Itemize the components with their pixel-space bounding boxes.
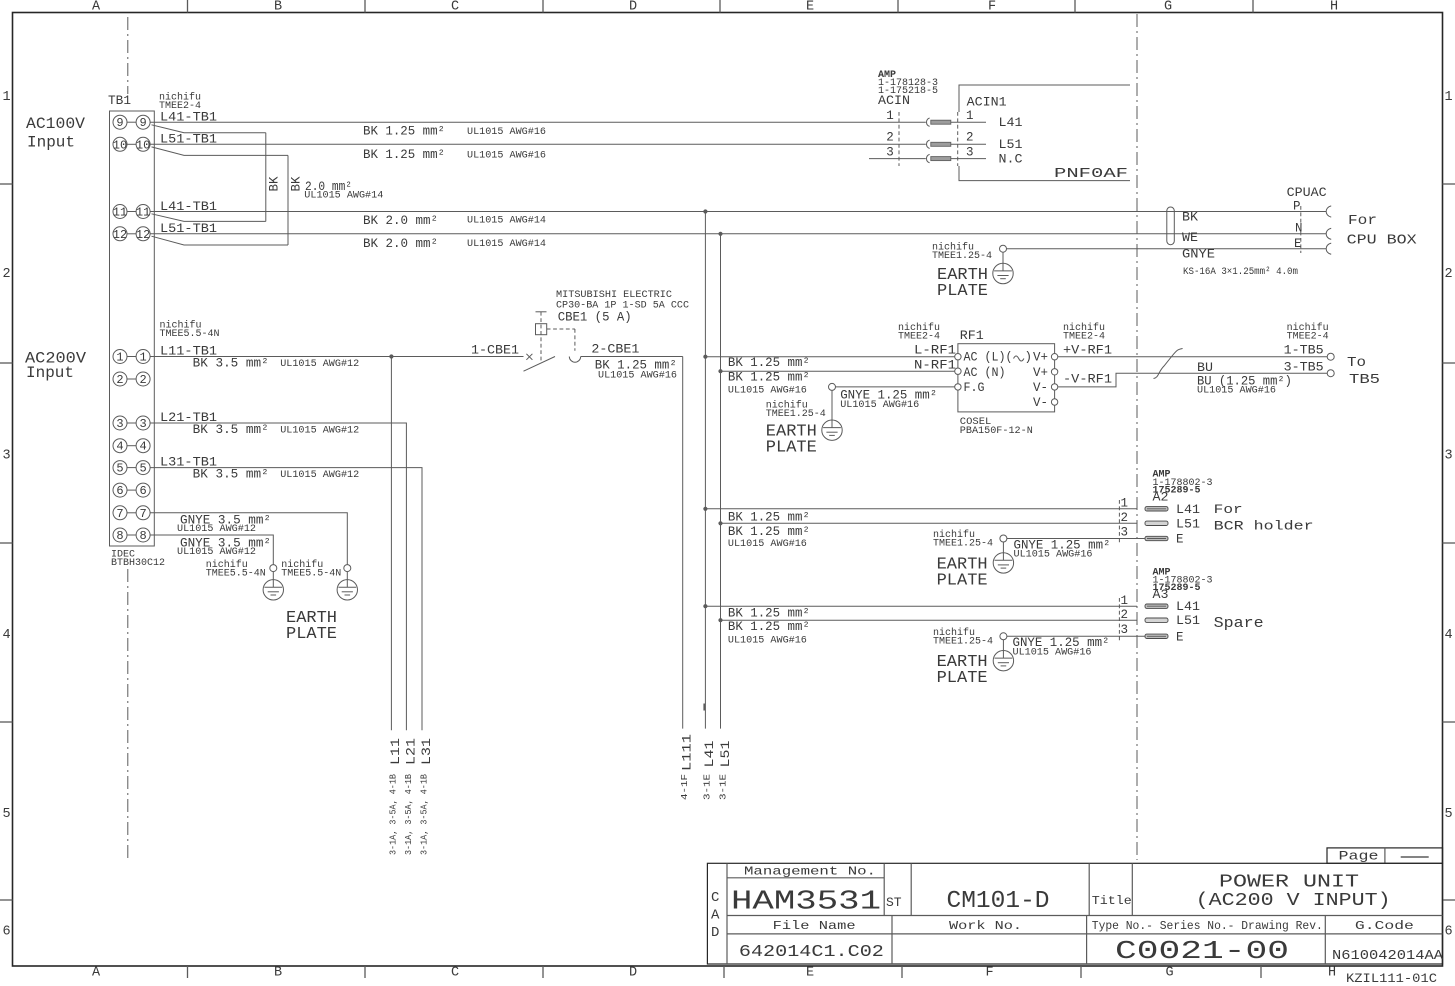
svg-text:2: 2 [2, 267, 10, 282]
svg-text:V-: V- [1033, 396, 1048, 410]
svg-text:12: 12 [113, 228, 127, 242]
svg-text:L51-TB1: L51-TB1 [160, 133, 217, 147]
svg-text:3-1A, 3-5A, 4-1B: 3-1A, 3-5A, 4-1B [403, 774, 414, 855]
svg-text:TMEE5.5-4N: TMEE5.5-4N [206, 569, 266, 580]
svg-text:L-RF1: L-RF1 [914, 344, 956, 358]
svg-text:4: 4 [2, 628, 10, 643]
TB1 terminal 9 [113, 115, 127, 129]
svg-text:N610042014AA: N610042014AA [1332, 949, 1444, 964]
earth plate terminal (CPU BOX) [1000, 245, 1007, 252]
svg-text:F: F [986, 966, 994, 981]
svg-text:RF1: RF1 [960, 329, 984, 343]
svg-text:BTBH30C12: BTBH30C12 [111, 558, 165, 569]
svg-text:C0021-00: C0021-00 [1115, 936, 1289, 966]
svg-text:BK 1.25 mm²: BK 1.25 mm² [363, 148, 445, 162]
svg-text:12: 12 [136, 228, 150, 242]
wire L11-TB1 (TB1-1 to CBE1) [151, 356, 524, 358]
A2 crimp splice 2 [1145, 521, 1168, 525]
svg-text:H: H [1330, 0, 1338, 15]
wire L41 to A3-1 [703, 604, 707, 608]
svg-text:3: 3 [886, 146, 894, 160]
A3 crimp splice 1 [1145, 604, 1168, 608]
svg-text:BK: BK [1182, 211, 1199, 225]
svg-text:4: 4 [139, 440, 146, 454]
svg-text:Type No.- Series No.- Drawing: Type No.- Series No.- Drawing Rev. [1092, 919, 1323, 933]
wire size-change tick on L41 [703, 704, 705, 711]
svg-text:UL1015 AWG#16: UL1015 AWG#16 [728, 634, 807, 646]
svg-text:2: 2 [116, 373, 123, 387]
svg-text:2: 2 [886, 131, 894, 145]
svg-text:5: 5 [116, 462, 123, 476]
svg-text:CPU BOX: CPU BOX [1347, 233, 1418, 249]
svg-text:5: 5 [1444, 807, 1452, 822]
RF1 pin F.G [955, 384, 961, 390]
svg-text:UL1015 AWG#12: UL1015 AWG#12 [177, 546, 256, 558]
wire L41 to A2-1 [703, 507, 707, 511]
svg-text:BK 1.25 mm²: BK 1.25 mm² [728, 620, 810, 634]
ACIN connector mating face (dashed) [898, 112, 900, 166]
svg-text:L41: L41 [1176, 503, 1200, 517]
node L31 off-page label [419, 738, 434, 765]
svg-text:N: N [1295, 222, 1303, 236]
breaker CBE1 contact cross [526, 354, 532, 360]
svg-text:CM101-D: CM101-D [947, 888, 1050, 915]
svg-text:BK 3.5 mm²: BK 3.5 mm² [193, 423, 269, 437]
svg-text:TMEE1.25-4: TMEE1.25-4 [932, 251, 992, 262]
wire L21-TB1 (TB1-3, off-page) [151, 423, 407, 730]
svg-text:HAM3531: HAM3531 [731, 888, 881, 918]
svg-text:+V-RF1: +V-RF1 [1063, 344, 1112, 358]
junction node L41 tap [703, 209, 707, 213]
svg-text:For: For [1348, 213, 1377, 229]
svg-text:PLATE: PLATE [766, 438, 817, 457]
svg-text:UL1015 AWG#16: UL1015 AWG#16 [728, 385, 807, 397]
svg-text:2: 2 [1120, 511, 1128, 525]
svg-text:BK 1.25 mm²: BK 1.25 mm² [728, 607, 810, 621]
svg-text:G: G [1166, 966, 1174, 981]
svg-text:PLATE: PLATE [937, 669, 988, 688]
svg-text:V+: V+ [1033, 366, 1048, 380]
earth wire A2-3 (GNYE) [1007, 538, 1145, 540]
svg-text:UL1015 AWG#16: UL1015 AWG#16 [1197, 385, 1276, 397]
svg-text:Input: Input [27, 133, 75, 151]
wire L41-TB1 (TB1-11 to CPU BOX P) [151, 211, 1327, 213]
svg-text:C: C [711, 890, 719, 906]
svg-text:V+: V+ [1033, 351, 1048, 365]
unit partition line (right, dash-dot) [1136, 14, 1138, 860]
earth wire A3-3 (GNYE) [1007, 635, 1145, 637]
svg-text:8: 8 [139, 529, 146, 543]
TB1 terminal 11 [113, 205, 127, 219]
A3 crimp splice 2 [1145, 618, 1168, 622]
svg-text:GNYE: GNYE [1182, 248, 1215, 262]
svg-text:3: 3 [1120, 623, 1128, 637]
svg-text:Management No.: Management No. [744, 865, 876, 879]
RF1 pin AC(L) [955, 354, 961, 360]
wire L51-TB1 (TB1-12 to CPU BOX N) [151, 233, 1327, 235]
TB1 terminal 12 [113, 227, 127, 241]
TB1 terminal 4 [113, 439, 127, 453]
svg-text:3-1E: 3-1E [718, 774, 729, 800]
noise filter PNF0AF box [959, 85, 1130, 112]
svg-text:3: 3 [139, 417, 146, 431]
junction node L11 drop [389, 354, 393, 358]
svg-text:2: 2 [1444, 267, 1452, 282]
svg-text:AC100V: AC100V [26, 115, 85, 133]
svg-text:CPUAC: CPUAC [1287, 186, 1327, 200]
svg-text:2: 2 [966, 131, 974, 145]
svg-text:-V-RF1: -V-RF1 [1063, 373, 1112, 387]
svg-text:3: 3 [1120, 526, 1128, 540]
power-unit partition line (left, dash-dot) [127, 17, 129, 94]
svg-text:1: 1 [966, 109, 974, 123]
svg-text:D: D [629, 0, 637, 15]
svg-text:POWER UNIT: POWER UNIT [1219, 873, 1359, 893]
wire L41 vertical distribution [704, 212, 706, 729]
svg-text:11: 11 [136, 206, 150, 220]
svg-text:UL1015 AWG#12: UL1015 AWG#12 [177, 523, 256, 535]
wire +V-RF1 to TB5-1 [1058, 356, 1327, 358]
svg-text:L41: L41 [1176, 600, 1200, 614]
svg-text:KS-16A 3×1.25mm² 4.0m: KS-16A 3×1.25mm² 4.0m [1183, 267, 1298, 278]
svg-text:D: D [711, 925, 719, 941]
svg-text:4: 4 [1444, 628, 1452, 643]
TB1 terminal 5 [113, 461, 127, 475]
svg-text:TMEE5.5-4N: TMEE5.5-4N [160, 329, 220, 340]
svg-text:E: E [1176, 630, 1184, 644]
TB1 terminal 8 [113, 528, 127, 542]
svg-text:6: 6 [2, 925, 10, 940]
svg-text:BK 1.25 mm²: BK 1.25 mm² [363, 125, 445, 139]
earth wire TB1-7 (GNYE 3.5mm) [151, 513, 348, 565]
svg-text:BK 1.25 mm²: BK 1.25 mm² [728, 511, 810, 525]
title block [707, 848, 1442, 964]
A3 crimp splice 3 [1145, 634, 1168, 638]
earth plate terminal (TB1-8) [270, 565, 277, 572]
svg-text:3: 3 [966, 146, 974, 160]
svg-text:PLATE: PLATE [937, 282, 988, 301]
svg-text:3: 3 [2, 449, 10, 464]
svg-text:Title: Title [1092, 894, 1132, 908]
wire L111 drop to off-page [682, 357, 684, 729]
wire L51 to A3-2 [718, 618, 722, 622]
svg-text:UL1015 AWG#12: UL1015 AWG#12 [280, 358, 359, 370]
svg-text:L31: L31 [419, 738, 434, 765]
svg-text:BK 1.25 mm²: BK 1.25 mm² [728, 356, 810, 370]
svg-text:UL1015 AWG#16: UL1015 AWG#16 [598, 370, 677, 382]
TB1 terminal 2 [113, 372, 127, 386]
svg-text:UL1015 AWG#16: UL1015 AWG#16 [467, 126, 546, 138]
node L51 off-page label [718, 740, 733, 767]
svg-text:CBE1 (5 A): CBE1 (5 A) [558, 310, 632, 324]
svg-text:4: 4 [116, 440, 123, 454]
svg-text:C: C [451, 0, 459, 15]
svg-text:3: 3 [116, 417, 123, 431]
svg-text:TMEE2-4: TMEE2-4 [1287, 332, 1329, 343]
svg-text:ACIN: ACIN [878, 94, 910, 108]
svg-text:E: E [1176, 533, 1184, 547]
svg-text:A: A [92, 0, 101, 15]
svg-text:Spare: Spare [1214, 615, 1264, 632]
svg-text:Input: Input [26, 364, 74, 382]
svg-text:): ) [1025, 351, 1033, 365]
jumper wire TB1-9 to TB1-11 (BK 2.0mm) [152, 125, 266, 133]
svg-text:1: 1 [2, 90, 10, 105]
BK color label (jumper 2, rotated) [290, 176, 304, 192]
cable bundle tie (oval) [1167, 207, 1175, 245]
svg-text:6: 6 [139, 484, 146, 498]
svg-text:3-1A, 3-5A, 4-1B: 3-1A, 3-5A, 4-1B [388, 774, 399, 855]
junction node L51 tap [718, 232, 722, 236]
svg-text:3: 3 [1444, 449, 1452, 464]
svg-text:TB1: TB1 [108, 94, 131, 108]
earth plate terminal (RF1 F.G) [829, 383, 836, 390]
svg-text:BK 1.25 mm²: BK 1.25 mm² [728, 370, 810, 384]
wire L51 to A2-2 [718, 521, 722, 525]
svg-text:TMEE1.25-4: TMEE1.25-4 [933, 539, 993, 550]
svg-text:N.C: N.C [999, 153, 1023, 167]
svg-text:9: 9 [116, 116, 123, 130]
earth wire RF1 F.G (GNYE) [836, 386, 955, 388]
A2 crimp splice 3 [1145, 536, 1168, 540]
TB1 terminal 7 [113, 506, 127, 520]
TB1 terminal 1 [113, 350, 127, 364]
svg-text:UL1015 AWG#16: UL1015 AWG#16 [840, 399, 919, 411]
RF1 pin AC(N) [955, 368, 961, 374]
svg-text:L51: L51 [718, 740, 733, 767]
wire N-RF1 (L51 tap to RF1 AC-N) [718, 369, 722, 373]
svg-text:F.G: F.G [964, 381, 985, 395]
svg-text:TMEE1.25-4: TMEE1.25-4 [766, 409, 826, 420]
wire L41-TB1 (TB1-9 to ACIN pin1) [151, 121, 926, 123]
svg-text:8: 8 [116, 529, 123, 543]
svg-text:Page: Page [1339, 848, 1379, 863]
svg-text:3-1E: 3-1E [702, 774, 713, 800]
svg-text:A: A [92, 966, 101, 981]
svg-text:TB5: TB5 [1349, 372, 1380, 388]
svg-text:P: P [1293, 200, 1301, 214]
svg-text:To: To [1347, 355, 1366, 371]
RF1 pin V- 2 [1051, 399, 1057, 405]
svg-text:TMEE1.25-4: TMEE1.25-4 [933, 636, 993, 647]
svg-text:6: 6 [1444, 925, 1452, 940]
svg-text:UL1015 AWG#14: UL1015 AWG#14 [467, 238, 546, 250]
svg-text:WE: WE [1182, 231, 1198, 245]
earth wire to CPU BOX E (GNYE) [1007, 248, 1327, 250]
svg-text:TMEE5.5-4N: TMEE5.5-4N [281, 569, 341, 580]
BK color label (jumper 1, rotated) [268, 176, 282, 192]
svg-text:For: For [1214, 502, 1243, 517]
TB1 terminal 10 [113, 137, 127, 151]
svg-text:PLATE: PLATE [937, 571, 988, 590]
svg-text:5: 5 [139, 462, 146, 476]
svg-text:4-1F: 4-1F [679, 774, 690, 800]
svg-text:UL1015 AWG#16: UL1015 AWG#16 [1014, 549, 1093, 561]
svg-text:E: E [806, 0, 814, 15]
wire 2-CBE1 to L111 [581, 356, 683, 358]
RF1 pin V+ 2 [1051, 369, 1057, 375]
wire L11 drop to off-page [390, 357, 392, 731]
svg-text:2: 2 [1120, 608, 1128, 622]
svg-text:TMEE2-4: TMEE2-4 [898, 332, 940, 343]
svg-text:C: C [451, 966, 459, 981]
node L41 off-page label [702, 740, 717, 767]
svg-text:L51: L51 [1176, 517, 1200, 531]
svg-text:G.Code: G.Code [1355, 919, 1414, 933]
svg-text:AC (L)(: AC (L)( [964, 351, 1013, 365]
svg-text:10: 10 [136, 138, 150, 152]
earth plate terminal (A2) [1000, 535, 1007, 542]
svg-text:642014C1.C02: 642014C1.C02 [739, 943, 884, 962]
svg-text:L41: L41 [999, 116, 1023, 130]
svg-text:File Name: File Name [773, 919, 856, 933]
earth wire TB1-8 (GNYE 3.5mm) [151, 535, 274, 565]
svg-text:E: E [806, 966, 814, 981]
svg-text:7: 7 [139, 507, 146, 521]
svg-text:3-1A, 3-5A, 4-1B: 3-1A, 3-5A, 4-1B [419, 774, 430, 855]
svg-text:L51: L51 [999, 138, 1023, 152]
node L11 off-page label [388, 738, 403, 765]
svg-text:PLATE: PLATE [286, 625, 337, 644]
svg-text:1: 1 [116, 351, 123, 365]
wire -V-RF1 to TB5-3 [1058, 373, 1327, 387]
svg-text:1: 1 [1444, 90, 1452, 105]
svg-text:BK: BK [268, 176, 282, 192]
svg-text:L11: L11 [388, 738, 403, 765]
breaker CBE1 manual operator (dashed linkage) [536, 311, 547, 313]
svg-text:1: 1 [1120, 497, 1128, 511]
jumper wire TB1-10 to TB1-12 (BK 2.0mm) [152, 147, 289, 156]
TB1 terminal 6 [113, 483, 127, 497]
svg-text:UL1015 AWG#16: UL1015 AWG#16 [1013, 647, 1092, 659]
wire L-RF1 (L41 tap to RF1 AC-L) [703, 355, 707, 359]
svg-text:ST: ST [886, 895, 902, 910]
svg-text:TMEE2-4: TMEE2-4 [1063, 332, 1105, 343]
svg-text:L41: L41 [702, 740, 717, 767]
svg-text:KZIL111-01C: KZIL111-01C [1346, 971, 1437, 986]
svg-text:BCR holder: BCR holder [1214, 519, 1314, 534]
svg-text:3-TB5: 3-TB5 [1284, 360, 1324, 374]
wire L51-TB1 (TB1-10 to ACIN pin2) [151, 143, 926, 145]
svg-text:2-CBE1: 2-CBE1 [591, 343, 639, 357]
svg-text:1: 1 [1120, 594, 1128, 608]
wire L31-TB1 (TB1-5, off-page) [151, 468, 423, 731]
svg-text:N-RF1: N-RF1 [914, 359, 956, 373]
svg-text:B: B [274, 0, 282, 15]
svg-text:F: F [988, 0, 996, 15]
svg-text:D: D [629, 966, 637, 981]
svg-text:UL1015 AWG#12: UL1015 AWG#12 [280, 425, 359, 437]
svg-text:BU: BU [1197, 361, 1213, 375]
svg-text:UL1015 AWG#16: UL1015 AWG#16 [467, 150, 546, 162]
RF1 pin V+ 1 [1051, 354, 1057, 360]
svg-text:V-: V- [1033, 381, 1048, 395]
RF1 pin V- 1 [1051, 384, 1057, 390]
svg-text:1-TB5: 1-TB5 [1284, 344, 1324, 358]
svg-text:BK 2.0 mm²: BK 2.0 mm² [363, 237, 438, 251]
svg-text:A: A [711, 908, 720, 924]
svg-text:G: G [1164, 0, 1172, 15]
svg-text:L21: L21 [404, 738, 419, 765]
svg-text:UL1015 AWG#12: UL1015 AWG#12 [280, 469, 359, 481]
svg-text:L51-TB1: L51-TB1 [160, 222, 217, 236]
svg-text:7: 7 [116, 507, 123, 521]
svg-text:UL1015 AWG#14: UL1015 AWG#14 [304, 190, 383, 202]
off-page hook N [1326, 228, 1331, 239]
svg-text:UL1015 AWG#14: UL1015 AWG#14 [467, 215, 546, 227]
svg-text:PNF0AF: PNF0AF [1054, 167, 1128, 182]
CPUAC mating face (dashed) [1300, 206, 1302, 253]
svg-text:6: 6 [116, 484, 123, 498]
earth plate terminal (TB1-7) [344, 565, 351, 572]
svg-text:B: B [274, 966, 282, 981]
svg-text:A2: A2 [1153, 491, 1169, 505]
breaker CBE1 terminal arc [569, 357, 580, 363]
svg-text:ACIN1: ACIN1 [967, 96, 1007, 110]
svg-text:1: 1 [139, 351, 146, 365]
svg-text:H: H [1328, 966, 1336, 981]
svg-text:L41-TB1: L41-TB1 [160, 200, 217, 214]
svg-text:5: 5 [2, 807, 10, 822]
svg-text:BK 2.0 mm²: BK 2.0 mm² [363, 214, 438, 228]
svg-text:AC (N): AC (N) [964, 366, 1006, 380]
svg-text:9: 9 [139, 116, 146, 130]
svg-text:2: 2 [139, 373, 146, 387]
svg-text:BK 3.5 mm²: BK 3.5 mm² [193, 468, 269, 482]
svg-text:A3: A3 [1153, 588, 1169, 602]
svg-text:1-CBE1: 1-CBE1 [471, 344, 519, 358]
svg-text:L41-TB1: L41-TB1 [160, 111, 217, 125]
svg-text:(AC200 V INPUT): (AC200 V INPUT) [1196, 891, 1391, 911]
TB1 terminal 3 [113, 416, 127, 430]
earth plate terminal (A3) [1000, 633, 1007, 640]
breaker CBE1 switch arm [524, 357, 556, 372]
svg-text:1: 1 [886, 109, 894, 123]
svg-text:L111: L111 [680, 734, 695, 771]
svg-text:Work No.: Work No. [949, 919, 1022, 933]
svg-text:UL1015 AWG#16: UL1015 AWG#16 [728, 538, 807, 550]
off-page hook P [1326, 206, 1331, 217]
svg-text:10: 10 [113, 138, 127, 152]
node L111 off-page label [680, 734, 695, 771]
cable crossing symbol [1154, 349, 1183, 379]
svg-text:BK: BK [290, 176, 304, 192]
ACIN pin 3 stub wire N.C [869, 158, 926, 160]
wire L51 vertical distribution [720, 234, 722, 729]
svg-text:L51: L51 [1176, 614, 1200, 628]
A2 crimp splice 1 [1145, 507, 1168, 511]
svg-text:BK 3.5 mm²: BK 3.5 mm² [193, 357, 269, 371]
off-page hook E [1326, 243, 1331, 254]
svg-text:11: 11 [113, 206, 127, 220]
svg-text:PBA150F-12-N: PBA150F-12-N [960, 425, 1033, 437]
node L21 off-page label [404, 738, 419, 765]
